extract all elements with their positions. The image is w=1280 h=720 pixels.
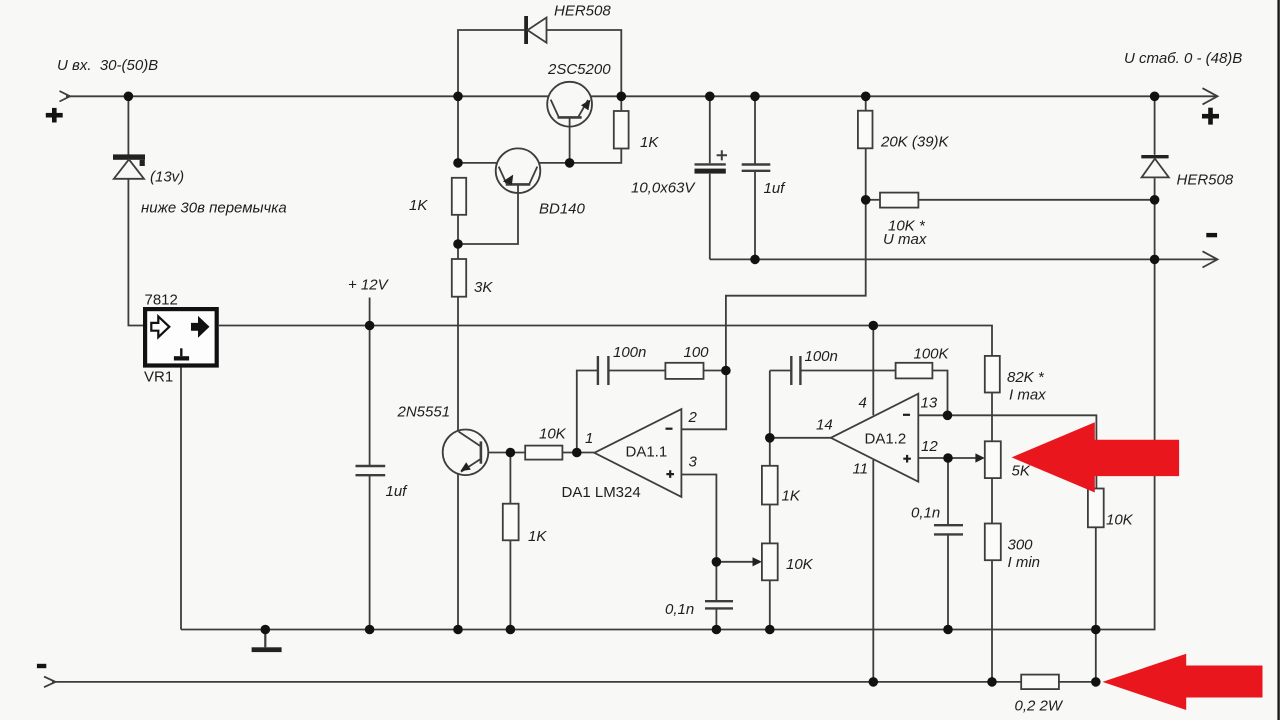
wire: 1K to 10K trimmer in divider column [769,505,771,544]
junction: 300 resistor on 0V sense line [987,677,997,687]
svg-text:300: 300 [1008,537,1034,554]
wire: 1K pulldown bottom to ground rail [509,540,511,629]
symbol: DA1.1 minus input [666,428,673,430]
resistor 1K (DA1.2 divider) [762,466,778,505]
wire: DA1.2 pin 4 supply lead [872,326,874,416]
wire: +12V label stub [369,298,371,326]
regulator VR1 7812 box [145,309,217,365]
junction: DA1.2 pin 12 node [943,453,953,463]
wire: 0,2 2W shunt to right node [1059,681,1096,683]
node: + input terminal mark [46,108,63,123]
junction: DA1.1 pin 3 wiper node [712,557,722,567]
junction: right HER508 anode node [1150,195,1160,205]
svg-text:10K: 10K [786,556,814,573]
wire: 82K to 5K trimmer [991,393,993,442]
node: - output terminal mark [1206,233,1217,237]
wire: 20K resistor to U-max node [865,148,867,200]
wire: - output rail y=259.4 [710,258,1216,260]
wire: DA1.2 pin 11 lead down to 0V sense line [872,460,874,682]
wire: wiper node down to 0,1n cap and ground rail [715,562,717,630]
svg-text:0,1n: 0,1n [911,505,940,522]
node: - input terminal arrowhead [44,677,56,688]
potentiometer 10K (voltage set) [753,543,778,580]
capacitor 0,1n (DA1.2 pin 12) [934,525,963,534]
junction: 10K trimmer on ground rail [765,625,775,635]
svg-text:1K: 1K [782,488,801,505]
svg-text:HER508: HER508 [554,3,611,20]
zener diode VD (13v) [113,154,145,178]
wire: DA1.2 pin 13 to right 10K resistor [918,415,1096,488]
resistor 300 I min [985,524,1001,561]
node: - input terminal mark [37,664,46,668]
wire: junction to HER508 top diode anode [458,30,524,96]
symbol: DA1.1 plus input [666,470,674,478]
svg-text:1uf: 1uf [764,180,787,197]
svg-text:2N5551: 2N5551 [397,404,451,421]
svg-text:82K *: 82K * [1007,369,1045,386]
wire: DA1.2 divider column riser from feedback tap [769,371,771,466]
junction: right HER508 on + rail [1150,92,1160,102]
svg-text:7812: 7812 [145,292,178,309]
junction: pin12 0,1n cap on ground rail [943,625,953,635]
junction: 1uf 12V cap on ground rail [365,625,375,635]
wire: 1uf capacitor C-12V bottom to ground rail [369,475,371,629]
svg-text:1K: 1K [409,197,428,214]
capacitor 100n (DA1.2 feedback) [791,356,800,385]
svg-text:2SC5200: 2SC5200 [547,61,611,78]
svg-text:10K: 10K [1106,512,1134,529]
junction: HER508 column on - rail [1150,255,1160,265]
junction: U-max node [861,195,871,205]
resistor 3K [452,259,466,297]
wire: DA1.2 100n feedback cap left lead [770,370,792,372]
svg-text:0,2 2W: 0,2 2W [1015,698,1064,715]
svg-text:DA1.2: DA1.2 [865,431,907,448]
svg-text:0,1n: 0,1n [665,601,694,618]
junction: 2N5551 base node [506,448,516,458]
ground symbol [252,630,282,653]
wire: 12V rail down to 1uf capacitor C-12V top [369,326,371,467]
op-amp U1a DA1.1 [594,409,681,497]
junction: right 10K on ground rail [1091,625,1101,635]
junction: pin 11 on 0V sense line [869,677,879,687]
wire: + input rail from input terminal to + output terminal, y=96.3 [66,95,1216,97]
svg-text:4: 4 [859,395,867,412]
capacitor 0,1n (DA1.1 pin 3) [705,601,733,608]
wire: 0V sense line from - input terminal to shunt [52,681,1021,683]
wire: feedback node riser to 10K U-max node [726,200,866,371]
wire: DA1.1 pin 1 riser to feedback network [577,371,598,453]
capacitor 1uf (12V rail) [356,466,386,475]
junction: 1uf cap on + rail [750,92,760,102]
junction: 20K branch on + rail [861,92,871,102]
svg-text:2: 2 [688,409,698,426]
wire: electrolytic cap bottom to - output rail [709,174,711,260]
svg-text:13: 13 [921,395,938,412]
svg-text:100K: 100K [914,346,950,363]
op-amp U1b DA1.2 [831,394,919,482]
wire: 100K resistor to pin 13 node [932,371,947,416]
wire: 7812 ground pin down to ground rail [180,367,182,629]
capacitor 10,0x63V electrolytic [695,150,728,173]
transistor Q1 2SC5200 [547,82,592,163]
svg-text:U max: U max [883,231,927,248]
wire: top rail junction down to base rail [457,96,459,163]
svg-text:10,0x63V: 10,0x63V [631,180,696,197]
svg-text:3: 3 [689,454,698,471]
node: input + terminal arrowhead [60,91,71,102]
svg-text:+ 12V: + 12V [348,277,390,294]
svg-text:1K: 1K [640,134,659,151]
svg-text:(13v): (13v) [150,169,184,186]
wire: 1K resistor top stub at collector node [620,96,622,111]
junction: DA1.2 pin 13 node [943,411,953,421]
svg-text:100: 100 [684,344,710,361]
junction: BD140 emitter / 3K node [453,239,463,249]
svg-text:DA1 LM324: DA1 LM324 [562,484,641,501]
wire: 2N5551 base to 10K input resistor and DA1.1 pin 1 [481,452,594,454]
wire: right HER508 diode anode down to - rail [1154,178,1156,259]
junction: DA1.2 pin 4 tap on 12V rail [869,321,879,331]
resistor 1K (2SC5200 base-emitter) [614,111,629,149]
junction: electrolytic cap on + rail [705,92,715,102]
wire: feedback 100n cap to 100 resistor [608,370,665,372]
wire: top rail to zener cathode [127,96,129,154]
wire: 7812 output +12V rail to 82K resistor [219,326,992,356]
svg-text:14: 14 [816,417,833,434]
svg-text:100n: 100n [613,344,646,361]
potentiometer 5K (current set) [975,441,1000,478]
svg-text:DA1.1: DA1.1 [626,444,668,461]
wire: DA1.2 pin 14 input [770,437,831,439]
svg-text:10K: 10K [539,426,567,443]
wire: pin 12 node down to 0,1n cap and ground rail [947,458,949,630]
wire: DA1.1 pin 3 to wiper node [681,475,716,562]
junction: zener tap on + rail [124,92,134,102]
resistor 10K (right column) [1088,489,1104,528]
wire: 10K trimmer bottom to ground rail [769,580,771,629]
svg-text:1K: 1K [528,528,547,545]
wire: 3K bottom down through 12V rail to 2N5551 and ground rail [457,297,459,630]
junction: +12V stub on 12V rail [365,321,375,331]
svg-text:HER508: HER508 [1177,172,1234,189]
wire: 1uf output cap bottom to - rail [754,171,756,260]
junction: base rail left node [453,158,463,168]
resistor 0,2 2W shunt [1021,675,1059,690]
svg-text:100n: 100n [805,348,838,365]
svg-text:VR1: VR1 [144,369,173,386]
resistor 82K* I max [985,356,1000,393]
symbol: DA1.2 plus input [903,455,911,463]
svg-text:U вх. 30-(50)В: U вх. 30-(50)В [57,57,158,74]
svg-text:5K: 5K [1012,463,1031,480]
diode HER508 top [524,16,546,44]
junction: DA1.2 pin 14 node [765,433,775,443]
wire: ground rail y=629.5 and riser to - output rail [181,259,1155,629]
node: + output terminal mark [1202,108,1219,125]
wire: 100 resistor to feedback node [704,370,726,372]
resistor 10K* U max [880,193,918,208]
wire: 5K trimmer to 300 resistor [991,478,993,523]
wire: 10K U-max resistor to right HER508 column [918,199,1154,201]
transistor Q2 BD140 [458,148,540,244]
resistor 100K (DA1.2 feedback) [896,363,933,379]
svg-text:ниже 30в перемычка: ниже 30в перемычка [141,200,287,217]
capacitor 100n (DA1.1 feedback) [598,356,609,385]
wire: base rail y=162.9 from 1K junction to 1K bottom [458,149,621,163]
wire: + output rail down to right HER508 diode [1154,96,1156,155]
wire: top rail junction to 20K resistor [865,96,867,110]
resistor 20K (39)K [858,111,873,149]
svg-text:11: 11 [853,461,869,478]
marker: red arrow pointing at shunt node [1103,654,1263,710]
svg-text:I max: I max [1009,387,1046,404]
junction: ground symbol on ground rail [261,625,271,635]
transistor Q3 2N5551 [443,430,489,476]
svg-text:1: 1 [585,430,593,447]
junction: HER508/1K branch on + rail [453,92,463,102]
capacitor 1uf (output) [742,165,771,171]
wire: top rail to 1uf output cap [754,96,756,163]
junction: DA1.1 pin 1 node [572,448,582,458]
junction: 2N5551 emitter on ground rail [453,625,463,635]
wire: HER508 top diode cathode to 1K collector node [547,30,622,96]
svg-text:I min: I min [1008,554,1041,571]
junction: 1uf cap on - rail [750,255,760,265]
wire: U-max node to 10K U-max resistor [866,199,880,201]
junction: 2SC5200 emitter on base rail [565,158,575,168]
resistor 10K (2N5551 base) [525,446,562,460]
svg-text:U стаб. 0 - (48)В: U стаб. 0 - (48)В [1124,50,1242,67]
wire: left 1K resistor bottom to BD140 emitter node [457,215,459,244]
junction: 0,1n cap on ground rail [712,625,722,635]
wire: DA1.2 pin 12 to 5K trimmer arrow [918,457,977,459]
svg-text:12: 12 [921,438,938,455]
node: output - terminal arrowhead [1203,251,1218,267]
marker: red arrow pointing at 5K trimmer [1012,422,1180,492]
wire: base node down to 1K pulldown [509,453,511,504]
wire: zener anode down to 7812 input [128,179,143,326]
svg-text:3K: 3K [474,279,493,296]
symbol: DA1.2 minus input [903,414,910,416]
node: output + terminal arrowhead [1203,88,1218,104]
wire: DA1.1 pin 2 to feedback node [681,371,726,430]
wire: 3K resistor top stub [457,244,459,259]
wire: right 10K bottom through ground rail to shunt node [1095,527,1097,682]
wire: top rail to electrolytic cap [709,96,711,163]
junction: 2SC5200 collector node on + rail [617,92,627,102]
svg-text:BD140: BD140 [539,201,586,218]
svg-text:1uf: 1uf [386,483,409,500]
junction: DA1.1 feedback node [721,366,731,376]
wire: 300 resistor down to 0V sense line [991,560,993,682]
svg-text:20K (39)K: 20K (39)K [880,134,950,151]
resistor 1K (BD140 base) [452,178,466,215]
resistor 100 (DA1.1 feedback) [665,363,703,379]
junction: 1K pulldown on ground rail [506,625,516,635]
wire: DA1.2 100n cap to 100K resistor [800,370,895,372]
resistor 1K (base pulldown) [503,504,519,541]
junction: shunt right node [1091,677,1101,687]
wire: wiper node arrow to 10K trimmer [716,561,754,563]
diode HER508 right [1141,155,1169,177]
